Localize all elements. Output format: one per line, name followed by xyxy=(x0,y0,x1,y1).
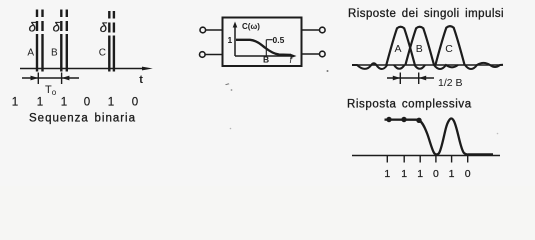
inner horizontal axis xyxy=(235,55,293,57)
svg-text:C: C xyxy=(445,43,453,55)
scan speck 2 xyxy=(231,89,233,91)
svg-text:1: 1 xyxy=(37,97,43,109)
svg-text:C: C xyxy=(99,48,106,59)
filter block box xyxy=(223,18,302,67)
svg-text:0: 0 xyxy=(132,97,138,109)
sample dot 3 xyxy=(416,118,421,123)
composite response curve xyxy=(385,119,494,155)
pulse baseline axis xyxy=(352,64,503,66)
time axis arrowhead xyxy=(142,67,153,71)
svg-text:1/2 B: 1/2 B xyxy=(438,77,463,89)
scan speck 1 xyxy=(225,83,230,85)
svg-text:1: 1 xyxy=(61,97,67,109)
impulse B xyxy=(61,10,67,72)
svg-text:1: 1 xyxy=(384,168,390,180)
svg-text:Risposte dei singoli impulsi: Risposte dei singoli impulsi xyxy=(348,8,504,20)
svg-text:Sequenza binaria: Sequenza binaria xyxy=(29,113,136,125)
filter response curve xyxy=(236,40,291,55)
impulse C xyxy=(109,11,114,72)
input terminal 1 xyxy=(200,27,223,33)
sinc pulse B main lobe xyxy=(405,27,434,65)
svg-text:1: 1 xyxy=(449,168,455,180)
inner vertical axis xyxy=(234,25,236,56)
svg-text:1: 1 xyxy=(108,97,114,109)
svg-text:t: t xyxy=(139,74,143,86)
svg-text:C(ω): C(ω) xyxy=(242,22,260,31)
half period dimension arrows xyxy=(393,76,426,81)
svg-text:0.5: 0.5 xyxy=(273,35,285,45)
svg-text:B: B xyxy=(416,43,423,55)
svg-text:B: B xyxy=(263,55,269,65)
scan speck 5 xyxy=(497,133,499,135)
svg-text:1: 1 xyxy=(12,97,18,109)
input terminal 2 xyxy=(200,52,223,58)
scan speck 4 xyxy=(230,128,232,130)
scan speck 3 xyxy=(327,70,329,72)
0.5 marker xyxy=(266,40,272,56)
svg-text:δ: δ xyxy=(29,20,37,35)
time axis xyxy=(20,68,146,70)
svg-text:A: A xyxy=(395,43,402,55)
binary digit row (left) xyxy=(12,97,138,109)
T0 dimension line xyxy=(22,73,79,85)
T0 dimension arrows xyxy=(31,76,70,81)
svg-text:1: 1 xyxy=(228,35,233,45)
svg-text:A: A xyxy=(27,48,34,59)
svg-text:Risposta complessiva: Risposta complessiva xyxy=(347,99,472,111)
response axis ticks xyxy=(387,156,467,163)
response digit row xyxy=(384,168,470,180)
svg-text:0: 0 xyxy=(433,168,439,180)
sample dot 2 xyxy=(401,117,406,122)
svg-text:0: 0 xyxy=(84,97,90,109)
svg-text:1: 1 xyxy=(401,168,407,180)
inner vertical axis arrowhead xyxy=(233,22,238,28)
inner horizontal axis arrowhead xyxy=(291,54,297,58)
sample dot 1 xyxy=(386,117,391,122)
sinc pulse A main lobe xyxy=(386,27,415,65)
half period dimension xyxy=(387,73,434,85)
side lobe ripples along baseline xyxy=(352,63,503,69)
svg-text:δ: δ xyxy=(53,20,61,35)
svg-text:δ: δ xyxy=(100,20,108,35)
svg-text:B: B xyxy=(51,48,58,59)
response axis xyxy=(352,155,500,157)
sinc pulse C main lobe xyxy=(435,26,464,65)
output terminal 2 xyxy=(302,51,326,57)
svg-text:0: 0 xyxy=(465,168,471,180)
impulse A xyxy=(37,10,43,72)
svg-text:1: 1 xyxy=(417,168,423,180)
output terminal 1 xyxy=(302,27,326,33)
